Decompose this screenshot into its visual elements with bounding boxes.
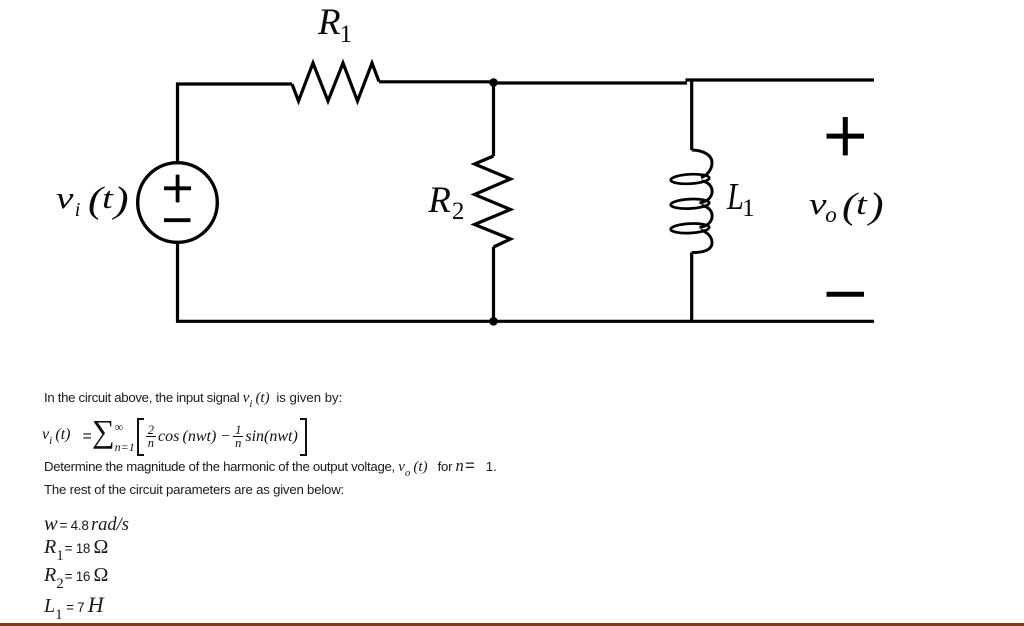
wire: L1 branch top lead <box>690 80 693 150</box>
label R1 <box>318 4 352 47</box>
wire: node A to inductor branch (top rail middle) <box>492 81 687 84</box>
parameter R2 value <box>44 563 108 593</box>
voltage source V (v_i) circle <box>138 163 218 243</box>
wire: top-left segment and left branch down to source top <box>178 84 293 163</box>
text: determine line <box>44 456 497 480</box>
inductor L1 coil bump 4 <box>692 230 712 252</box>
label R2 <box>428 182 464 225</box>
bottom rule <box>0 623 1024 625</box>
wire: L1 branch bottom lead <box>690 253 693 322</box>
formula: input signal sum expression <box>42 416 307 458</box>
parameter w value <box>44 512 129 537</box>
wire: source bottom lead, bottom rail to output <box>178 242 875 321</box>
text: problem statement line 1 <box>44 389 342 411</box>
inductor L1 coil loop 2 <box>670 198 709 209</box>
wire: R2 branch top lead <box>492 81 495 156</box>
parameter R1 value <box>44 535 108 565</box>
wire: R2 branch bottom lead <box>492 247 495 322</box>
output minus sign <box>827 292 865 297</box>
inductor L1 coil bump 2 <box>700 181 713 203</box>
output plus sign <box>827 117 865 155</box>
label L1 <box>727 178 755 222</box>
wire: top rail right segment to output terminal <box>686 78 875 81</box>
source minus sign <box>164 218 191 222</box>
label v_o(t) output <box>809 188 881 226</box>
inductor L1 coil bump 3 <box>700 206 713 228</box>
inductor L1 coil bump 1 <box>692 150 712 178</box>
wire: R1 right lead to node A <box>379 80 494 83</box>
label v_i(t) source <box>56 182 126 221</box>
node A junction dot (top) <box>489 78 498 87</box>
resistor R2 (shunt, vertical) <box>475 156 511 247</box>
source plus sign <box>164 175 191 203</box>
circuit schematic canvas <box>0 0 1024 360</box>
text: rest of parameters line <box>44 482 344 498</box>
node B junction dot (bottom) <box>489 317 498 326</box>
parameter L1 value <box>44 592 104 624</box>
inductor L1 coil loop 3 <box>670 223 709 234</box>
inductor L1 coil loop 1 <box>670 173 709 184</box>
resistor R1 (series, top) <box>292 63 379 101</box>
